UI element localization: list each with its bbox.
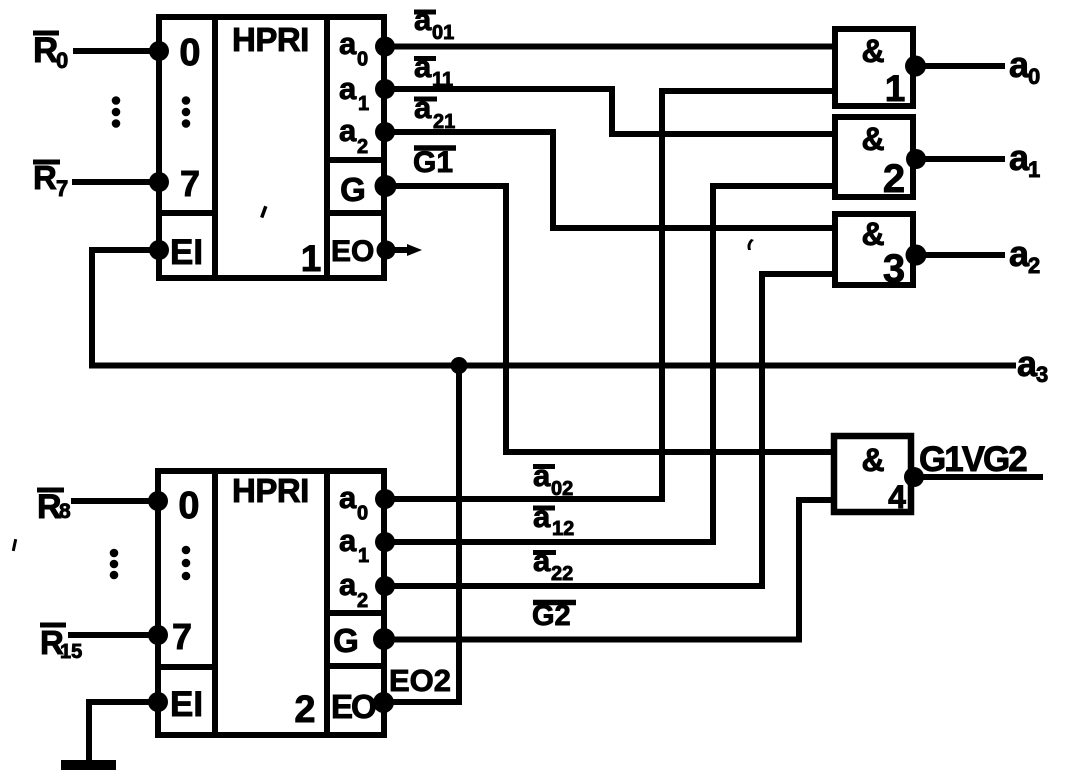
svg-text:1: 1 [358,93,369,115]
pin dot U2 EO [373,692,394,713]
wire net a01: U1 a0 to gate1 input [385,44,835,50]
pin dot U1 a2 [375,122,395,142]
U2 a2/G cell divider [327,610,384,616]
scan mark tick left of gate3 [747,239,754,250]
svg-text:12: 12 [552,518,574,540]
svg-text:&: & [861,216,884,252]
svg-text:2: 2 [357,136,368,158]
svg-text:a: a [339,113,357,148]
U1 input column divider [212,17,218,278]
wire gate4 output G1VG2 [914,474,1040,480]
U1 output column divider [324,17,330,278]
svg-text:4: 4 [888,479,906,515]
pin dot U2 a2 [375,576,395,596]
svg-text:EI: EI [170,233,203,272]
pin dot U2 input 0 [148,491,168,511]
svg-text:8: 8 [59,500,71,523]
pin dot U2 a0 [375,489,395,509]
wire net G1bar: U1 G to gate4 input [385,186,834,452]
scan mark slash inside U1 [260,206,267,218]
svg-text:a: a [1009,233,1030,274]
pin dot gate1 output [905,56,926,77]
pin dot U1 EO [377,241,396,260]
svg-text:G1: G1 [413,146,453,179]
overline a22 [533,550,556,555]
svg-text:0: 0 [357,503,368,525]
svg-text:a: a [533,543,551,578]
and-gate G3 box [835,214,913,285]
svg-text:7: 7 [56,176,68,201]
svg-text:G: G [333,622,359,659]
U2 ellipsis outside [110,549,119,558]
U2 ellipsis inside [182,546,191,555]
svg-text:7: 7 [172,616,192,657]
U1 ellipsis inside [182,96,191,105]
ground symbol [66,760,111,770]
svg-text:G: G [340,171,366,208]
wire net G2bar: U2 G to gate4 input [385,500,834,640]
pin dot gate2 output [906,149,926,169]
svg-text:a: a [339,480,357,515]
svg-text:11: 11 [432,69,453,91]
overline G1 [414,145,456,151]
overline R15 [40,623,66,628]
overline a11 [414,56,436,61]
pin dot U2 input 7 [148,625,168,645]
svg-text:1: 1 [301,238,322,279]
svg-text:a: a [1009,137,1030,178]
svg-text:1: 1 [358,545,369,567]
pin dot U1 EI [149,240,169,260]
scan mark tick bottom left [12,539,17,551]
U2 output column divider [324,471,330,735]
and-gate G4 box [834,436,911,512]
wire net a12: U2 a1 to gate2 input [385,186,835,542]
svg-text:1: 1 [885,68,906,109]
svg-text:3: 3 [883,247,905,291]
wire net a02: U2 a0 to gate1 input [385,91,835,499]
svg-text:a: a [339,26,357,61]
svg-text:a: a [533,458,551,493]
svg-text:0: 0 [56,48,68,73]
svg-text:2: 2 [1028,253,1040,278]
svg-text:7: 7 [180,163,200,204]
wire R8 input [74,498,158,504]
svg-text:a: a [414,2,432,37]
svg-text:0: 0 [1028,64,1040,89]
svg-text:3: 3 [1036,362,1048,387]
svg-text:01: 01 [432,22,454,44]
svg-text:22: 22 [551,563,573,585]
wire R15 input [71,632,158,638]
svg-text:&: & [861,442,884,478]
pin dot U1 a0 [375,37,395,57]
pin dot U1 input 0 [149,41,169,61]
svg-text:15: 15 [60,641,82,663]
svg-text:21: 21 [433,111,455,133]
pin dot gate3 output [906,245,927,266]
overline a02 [533,464,555,469]
svg-text:a: a [533,499,551,534]
encoder U1 outer box [159,17,384,278]
pin dot U2 a1 [375,532,395,552]
overline a21 [414,97,437,102]
wire net a22: U2 a2 to gate3 input [385,274,835,586]
wire net EI1 / a3 line [92,250,1013,366]
wire gate2 output a1 [916,156,1002,162]
wire net a11: U1 a1 to gate2 input [385,89,835,134]
svg-text:a: a [1017,343,1038,384]
svg-text:G1VG2: G1VG2 [919,440,1027,479]
wire net EO2 riser to junction [385,366,459,703]
svg-text:R: R [33,159,57,196]
svg-text:a: a [339,523,357,558]
overline R8 [37,488,64,493]
encoder U2 outer box [158,471,384,735]
and-gate G1 box [835,29,913,106]
svg-text:2: 2 [294,689,315,731]
wire EO1 stub [394,247,411,253]
EO1 stub arrowhead [407,244,422,256]
svg-text:0: 0 [179,32,200,74]
pin dot U1 G [375,175,397,197]
svg-text:EI: EI [170,685,203,724]
pin dot gate4 output [904,467,924,487]
overline a12 [533,506,555,511]
svg-text:a: a [414,90,432,125]
svg-text:EO: EO [331,235,374,268]
svg-text:HPRI: HPRI [232,472,309,509]
svg-text:2: 2 [357,590,368,612]
svg-text:a: a [339,71,357,106]
wire R0 input [76,48,159,54]
svg-text:HPRI: HPRI [232,21,309,58]
svg-text:0: 0 [178,485,199,527]
U1 EI cell divider [159,210,215,216]
overline R0 [33,31,59,36]
svg-text:EO: EO [331,688,376,725]
svg-text:a: a [1009,44,1030,85]
svg-text:2: 2 [883,157,905,201]
pin dot U1 a1 [375,79,395,99]
svg-text:02: 02 [551,478,573,500]
svg-text:R: R [37,488,62,526]
overline a01 [414,10,436,15]
pin dot U2 G [373,628,395,650]
svg-text:a: a [339,567,357,602]
wire net a21: U1 a2 to gate3 input [385,132,835,228]
wire gate1 output a0 [916,63,1002,69]
wire EI2 to ground [89,702,158,758]
svg-text:R: R [33,31,58,70]
junction node a3/EO2 [451,357,468,374]
wire gate3 output a2 [916,252,1002,258]
U1 a2/G cell divider [327,157,384,163]
overline G2 [533,600,576,606]
svg-text:1: 1 [1028,157,1040,182]
wire R7 input [75,179,159,185]
svg-text:&: & [861,121,884,157]
pin dot U1 input 7 [149,172,169,192]
svg-text:EO2: EO2 [389,663,451,698]
U1 ellipsis outside [112,96,121,105]
svg-text:a: a [414,49,432,84]
U2 input column divider [212,471,218,735]
overline R7 [33,160,60,165]
svg-text:0: 0 [357,49,368,71]
U1 G/EO cell divider [327,210,384,216]
svg-text:&: & [861,33,884,69]
and-gate G2 box [835,117,913,197]
U2 G/EO cell divider [327,663,384,669]
pin dot U2 EI [148,692,168,712]
U2 EI cell divider [158,664,215,670]
